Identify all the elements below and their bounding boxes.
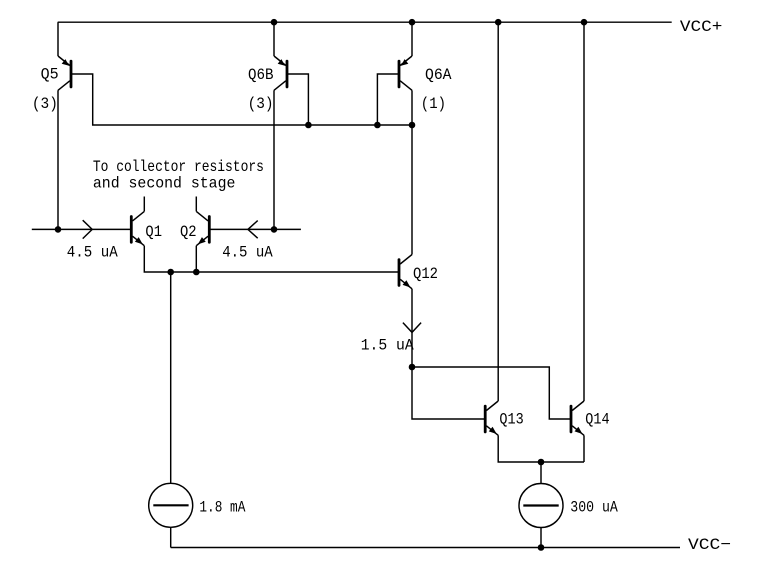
wire Q12 emitter drop (411, 289, 413, 367)
svg-text:1.5 uA: 1.5 uA (361, 337, 414, 355)
svg-text:Q2: Q2 (180, 223, 197, 241)
wire Q13 emitter to common (498, 435, 584, 462)
wire Q1 base input (32, 228, 132, 230)
transistor Q14 (571, 401, 584, 435)
wire Q1 collector stub (143, 197, 145, 212)
svg-text:VCC−: VCC− (688, 536, 731, 554)
wire Q2 base input (209, 228, 301, 230)
svg-text:and second stage: and second stage (93, 174, 236, 192)
wire Q6B base drop (287, 74, 308, 125)
svg-text:1.8 mA: 1.8 mA (199, 499, 245, 517)
svg-text:Q12: Q12 (413, 265, 438, 283)
svg-text:(3): (3) (32, 95, 58, 113)
wire Q12 collector lead (411, 125, 413, 255)
svg-text:Q6A: Q6A (425, 66, 452, 84)
transistor Q12 (399, 255, 412, 289)
junction dot tail node (167, 269, 174, 276)
svg-text:(1): (1) (421, 95, 446, 113)
wire Q6A base drop (377, 74, 399, 125)
junction dot bus Q6A collector (409, 122, 416, 129)
wire 300uA source bottom (540, 528, 542, 548)
junction dot Q2 emitter node (193, 269, 200, 276)
junction dot rail Q14 (581, 19, 588, 26)
wire Q2 emitter drop (195, 246, 197, 272)
svg-text:4.5 uA: 4.5 uA (222, 243, 273, 261)
junction dot rail Q13 (495, 19, 502, 26)
wire Q6A collector lead (411, 90, 413, 125)
svg-text:To collector resistors: To collector resistors (93, 158, 264, 176)
transistor Q6B (274, 56, 287, 90)
wire Q5 base to mirror bus (71, 74, 412, 125)
current arrow 1.5uA (403, 323, 421, 333)
junction dot Q2 input node (271, 226, 278, 233)
junction dot Q1 input node (55, 226, 62, 233)
svg-text:Q14: Q14 (585, 411, 609, 429)
wire common to 300uA source (540, 462, 542, 484)
svg-text:(3): (3) (248, 95, 274, 113)
junction dot Q13 Q14 emitter node (538, 459, 545, 466)
svg-text:Q1: Q1 (145, 223, 162, 241)
wire Q14 collector lead (583, 22, 585, 401)
transistor Q1 (131, 211, 144, 245)
svg-text:VCC+: VCC+ (680, 18, 723, 36)
wire Q6B emitter lead (273, 22, 275, 56)
svg-text:Q5: Q5 (41, 66, 59, 84)
transistor Q2 (196, 211, 209, 245)
wire VCC- rail (171, 547, 680, 549)
current arrow into Q1 base (83, 220, 93, 238)
svg-text:300 uA: 300 uA (570, 499, 618, 517)
wire tail to 1.8mA source (170, 272, 172, 483)
junction dot rail Q6A (409, 19, 416, 26)
wire Q5 emitter lead (57, 22, 59, 56)
junction dot Q12 emitter node (409, 364, 416, 371)
transistor Q6A (399, 56, 412, 90)
wire node to Q14 base (412, 367, 571, 419)
junction dot bus Q6A base (374, 122, 381, 129)
svg-text:Q13: Q13 (499, 411, 523, 429)
wire VCC+ rail (58, 21, 672, 23)
wire Q14 emitter drop (583, 435, 585, 462)
wire node to Q13 base (412, 367, 485, 419)
wire Q1 emitter to Q12 base bus (144, 246, 399, 272)
transistor Q5 (58, 56, 71, 90)
wire Q5 collector lead (57, 90, 59, 229)
junction dot rail Q6B (271, 19, 278, 26)
wire 1.8mA source bottom (170, 527, 172, 547)
transistor Q13 (485, 401, 498, 435)
wire Q13 collector lead (497, 22, 499, 401)
junction dot bus Q6B base (305, 122, 312, 129)
wire Q6A emitter lead (411, 22, 413, 56)
current source I2 300uA (519, 484, 563, 528)
current source I1 1.8mA (149, 483, 193, 527)
svg-text:4.5 uA: 4.5 uA (67, 243, 118, 261)
svg-text:Q6B: Q6B (248, 66, 274, 84)
wire Q6B collector lead (273, 90, 275, 229)
current arrow into Q2 base (248, 221, 258, 239)
junction dot VCC- rail (538, 544, 545, 551)
wire Q2 collector stub (195, 197, 197, 212)
